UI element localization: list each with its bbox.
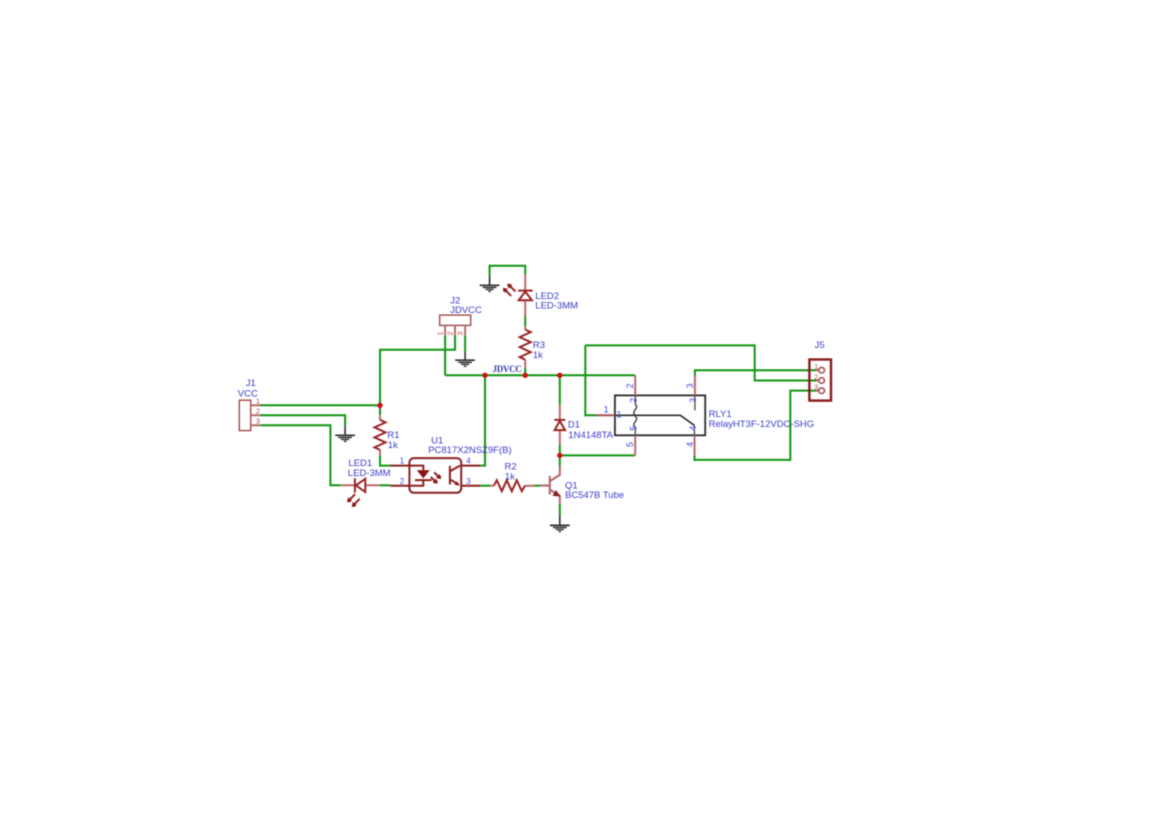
wire U1 pin4 riser to bus [480, 375, 485, 465]
wire LED1 to U1 pin2 [380, 484, 391, 486]
wire R1 to U1 pin1 [380, 455, 390, 465]
wire R3 to bus [524, 368, 526, 376]
junction node B [482, 373, 487, 378]
wire U1 pin3 to R2 [480, 485, 490, 487]
svg-text:1k: 1k [533, 350, 543, 361]
wire JDVCC bus [445, 374, 635, 376]
resistor R2 [490, 462, 535, 492]
wire J1 pin1 to node [260, 404, 380, 406]
wire JDVCC to J5 pin2 [585, 345, 816, 380]
wire node to relay pin5 [560, 454, 635, 456]
wire bus to D1 [559, 375, 561, 405]
wire relay pin4 to J5 pin3 [695, 391, 816, 460]
svg-text:3: 3 [256, 417, 260, 426]
ground (J2 pin3) [455, 352, 475, 367]
svg-text:3: 3 [456, 331, 465, 335]
svg-text:1: 1 [400, 457, 405, 466]
wire J2 pin1 to JDVCC bus [444, 335, 446, 375]
svg-text:2: 2 [256, 407, 260, 416]
connector J2 [436, 295, 483, 335]
wire JDVCC to relay pin1 [585, 345, 596, 415]
wire J1 pin2 to ground [260, 415, 345, 425]
svg-text:PC817X2NSZ9F(B): PC817X2NSZ9F(B) [428, 445, 511, 456]
svg-text:3: 3 [814, 383, 818, 392]
svg-text:LED-3MM: LED-3MM [348, 468, 391, 479]
svg-text:BC547B Tube: BC547B Tube [565, 490, 624, 501]
svg-text:4: 4 [685, 442, 695, 447]
svg-text:RelayHT3F-12VDC-SHG: RelayHT3F-12VDC-SHG [709, 419, 815, 430]
connector J1 [238, 378, 260, 431]
diode D1 [554, 405, 613, 445]
wire D1 to node [559, 445, 561, 456]
relay RLY1 [596, 375, 814, 455]
svg-text:2: 2 [625, 383, 635, 388]
wire J2 pin3 to ground [464, 335, 466, 351]
ground (Q1 emitter) [550, 516, 570, 532]
svg-text:2: 2 [814, 373, 818, 382]
wire node to Q1 collector [559, 455, 561, 465]
wire J1 pin3 to LED1 [260, 425, 340, 485]
wire top ground to LED2 [490, 266, 526, 276]
svg-text:2: 2 [628, 398, 638, 403]
transistor Q1 [540, 466, 624, 504]
wire LED2 to R3 [524, 316, 526, 326]
LED LED2 [503, 275, 578, 317]
LED LED1 [341, 458, 391, 507]
svg-text:VCC: VCC [238, 389, 258, 400]
svg-text:3: 3 [685, 383, 695, 388]
resistor R1 [375, 415, 400, 455]
svg-text:5: 5 [625, 442, 635, 447]
svg-text:4: 4 [688, 426, 698, 431]
svg-text:2: 2 [445, 331, 454, 335]
junction node C [523, 373, 528, 378]
svg-text:1: 1 [616, 410, 621, 420]
svg-text:1N4148TA: 1N4148TA [568, 430, 613, 441]
svg-text:JDVCC: JDVCC [493, 364, 522, 374]
junction node D [557, 373, 562, 378]
svg-text:LED-3MM: LED-3MM [535, 301, 578, 312]
svg-text:J5: J5 [815, 340, 825, 351]
svg-text:5: 5 [628, 426, 638, 431]
svg-text:3: 3 [466, 477, 471, 486]
svg-text:1: 1 [436, 331, 445, 335]
svg-text:1k: 1k [388, 440, 398, 451]
svg-text:1k: 1k [505, 471, 515, 482]
wire relay pin3 to J5 pin1 [695, 370, 816, 375]
svg-text:2: 2 [400, 477, 405, 486]
optocoupler U1 [390, 435, 511, 492]
svg-text:4: 4 [466, 457, 471, 466]
junction node A [377, 403, 382, 408]
svg-text:1: 1 [604, 405, 609, 415]
ground (J1 pin2) [335, 426, 355, 442]
ground (top left) [480, 276, 500, 292]
wire R2 to Q1 base [535, 485, 541, 487]
svg-text:J1: J1 [246, 378, 256, 389]
resistor R3 [520, 326, 545, 367]
wire Q1 emitter to ground [559, 504, 561, 515]
svg-text:3: 3 [688, 398, 698, 403]
junction node E [557, 453, 562, 458]
wire node to R1 [379, 405, 381, 415]
connector J5 [809, 340, 831, 400]
wire node to J2 pin2 [380, 335, 455, 405]
svg-text:1: 1 [814, 362, 818, 371]
svg-text:JDVCC: JDVCC [450, 305, 482, 316]
